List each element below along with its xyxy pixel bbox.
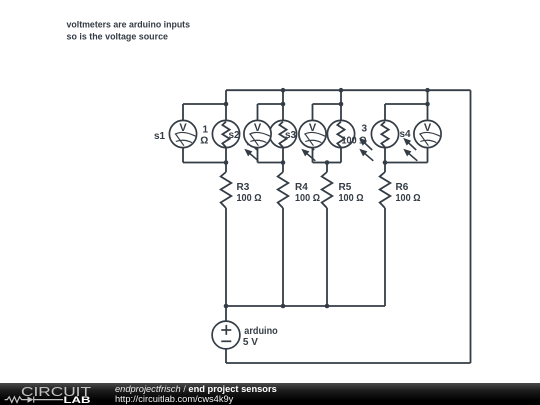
svg-text:s4: s4 [400, 129, 412, 140]
svg-text:s2: s2 [229, 130, 241, 141]
svg-text:R3: R3 [237, 182, 250, 193]
svg-text:voltmeters are arduino inputs: voltmeters are arduino inputs [67, 19, 191, 29]
svg-text:s1: s1 [154, 131, 166, 142]
svg-text:so is the voltage source: so is the voltage source [67, 31, 169, 41]
svg-text:100 Ω: 100 Ω [339, 193, 364, 204]
svg-text:3: 3 [362, 124, 368, 135]
svg-text:1: 1 [203, 124, 209, 135]
svg-text:arduino: arduino [244, 326, 277, 337]
svg-text:R6: R6 [396, 182, 409, 193]
svg-text:100 Ω: 100 Ω [396, 193, 421, 204]
svg-text:LAB: LAB [64, 395, 91, 405]
svg-text:5 V: 5 V [243, 337, 258, 348]
svg-text:100 Ω: 100 Ω [237, 193, 262, 204]
svg-text:Ω: Ω [200, 136, 208, 147]
svg-text:R4: R4 [295, 182, 308, 193]
svg-text:s3: s3 [285, 130, 297, 141]
svg-text:100 Ω: 100 Ω [295, 193, 320, 204]
svg-text:R5: R5 [339, 182, 352, 193]
